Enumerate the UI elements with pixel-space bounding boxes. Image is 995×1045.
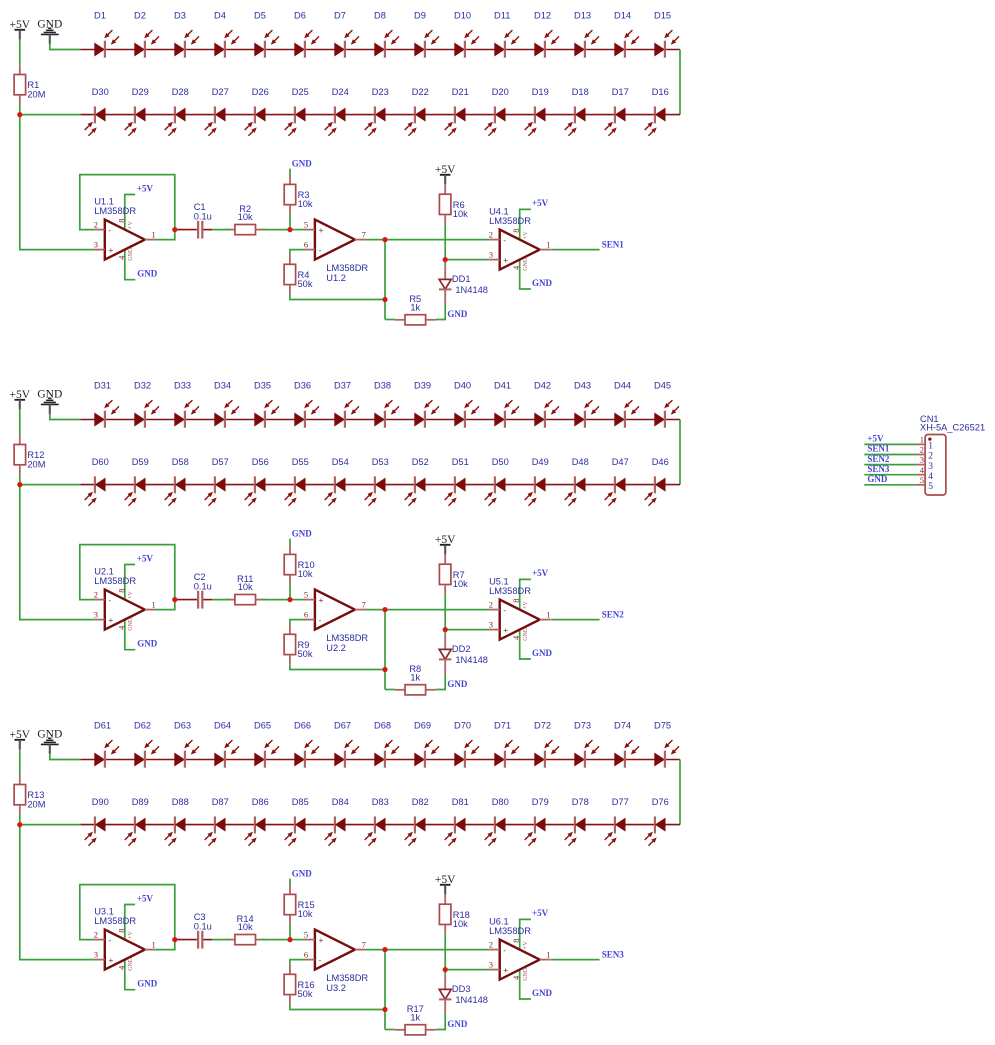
net +5V at output op-amp xyxy=(520,579,531,611)
wire output of second op-amp xyxy=(366,949,489,951)
photodiode D38 xyxy=(374,381,399,428)
svg-text:+: + xyxy=(503,625,508,635)
svg-text:D4: D4 xyxy=(214,11,226,21)
net +5V at output op-amp xyxy=(520,209,531,241)
svg-text:3: 3 xyxy=(928,462,933,472)
svg-text:D3: D3 xyxy=(174,11,186,21)
svg-text:GND: GND xyxy=(867,474,888,484)
svg-text:-: - xyxy=(503,235,506,245)
svg-text:1: 1 xyxy=(920,435,924,445)
+5V power flag xyxy=(10,729,31,749)
svg-text:LM358DR: LM358DR xyxy=(94,576,136,586)
wire node to pin 5 xyxy=(290,939,305,941)
svg-text:8: 8 xyxy=(511,598,521,602)
svg-text:D86: D86 xyxy=(252,797,269,807)
net GND at first op-amp xyxy=(125,619,136,650)
wire right edge joining rows xyxy=(679,760,681,825)
svg-text:D24: D24 xyxy=(332,87,349,97)
connector pin 5 net GND xyxy=(864,474,933,492)
photodiode D44 xyxy=(614,381,639,428)
net GND at output op-amp xyxy=(520,969,531,1000)
wire output of second op-amp xyxy=(366,239,489,241)
svg-text:GND: GND xyxy=(447,679,468,689)
svg-text:D74: D74 xyxy=(614,721,631,731)
svg-text:DD2: DD2 xyxy=(452,644,471,654)
svg-text:10k: 10k xyxy=(238,922,253,932)
svg-text:4: 4 xyxy=(928,472,933,482)
capacitor C1 0.1u xyxy=(175,202,213,239)
net GND above R3 xyxy=(289,169,291,176)
photodiode D53 xyxy=(365,457,389,506)
resistor R15 10k xyxy=(284,885,314,925)
wire top diode row xyxy=(80,419,680,421)
svg-text:D87: D87 xyxy=(212,797,229,807)
svg-text:4: 4 xyxy=(116,255,126,260)
net GND at first op-amp xyxy=(125,959,136,990)
svg-text:2: 2 xyxy=(94,929,98,939)
node feedback/C junction xyxy=(172,937,177,942)
svg-text:D20: D20 xyxy=(492,87,509,97)
svg-text:6: 6 xyxy=(304,949,308,959)
svg-text:D44: D44 xyxy=(614,381,631,391)
connector CN1 XH-5A_C26521 xyxy=(920,414,985,495)
photodiode D76 xyxy=(645,797,669,846)
svg-text:SEN1: SEN1 xyxy=(867,444,890,454)
svg-text:D76: D76 xyxy=(652,797,669,807)
photodiode D64 xyxy=(214,721,239,768)
svg-text:10k: 10k xyxy=(298,199,313,209)
resistor R10 10k xyxy=(284,545,314,585)
+5V power flag xyxy=(435,874,456,894)
svg-text:3: 3 xyxy=(489,249,493,259)
svg-text:U3.1: U3.1 xyxy=(94,907,114,917)
photodiode D83 xyxy=(365,797,389,846)
wire R to lower net xyxy=(290,1004,385,1009)
net +5V at first op-amp xyxy=(125,195,135,232)
svg-text:SEN2: SEN2 xyxy=(867,454,890,464)
svg-text:D7: D7 xyxy=(334,11,346,21)
svg-text:D53: D53 xyxy=(372,457,389,467)
photodiode D77 xyxy=(605,797,629,846)
wire ground to top diode row xyxy=(50,44,81,50)
photodiode D25 xyxy=(285,87,309,136)
resistor R2 10k xyxy=(225,204,266,235)
photodiode D3 xyxy=(174,11,199,58)
svg-text:SEN1: SEN1 xyxy=(602,239,625,249)
wire R down across to pin3 node xyxy=(444,594,446,629)
svg-text:D68: D68 xyxy=(374,721,391,731)
svg-text:+5V: +5V xyxy=(137,184,154,194)
svg-text:GND: GND xyxy=(128,957,134,971)
photodiode D21 xyxy=(445,87,469,136)
wire junction to bottom diode row xyxy=(20,484,81,486)
svg-text:6: 6 xyxy=(304,239,308,249)
photodiode D55 xyxy=(285,457,309,506)
svg-text:SEN3: SEN3 xyxy=(602,949,625,959)
svg-text:D34: D34 xyxy=(214,381,231,391)
photodiode D52 xyxy=(405,457,429,506)
capacitor C3 0.1u xyxy=(175,912,213,949)
node left rail junction xyxy=(17,822,22,827)
resistor R3 10k xyxy=(284,175,313,215)
svg-text:D22: D22 xyxy=(412,87,429,97)
svg-text:D43: D43 xyxy=(574,381,591,391)
svg-text:D36: D36 xyxy=(294,381,311,391)
wire feedback loop xyxy=(80,545,175,610)
svg-text:6: 6 xyxy=(304,609,308,619)
svg-text:4: 4 xyxy=(116,965,126,970)
node lower net junction xyxy=(382,297,387,302)
photodiode D75 xyxy=(654,721,679,768)
photodiode D72 xyxy=(534,721,559,768)
wire R to diode column xyxy=(436,674,446,690)
svg-text:D41: D41 xyxy=(494,381,511,391)
svg-text:2: 2 xyxy=(920,445,924,455)
svg-text:1k: 1k xyxy=(410,1012,420,1022)
photodiode D31 xyxy=(94,381,119,428)
svg-text:5: 5 xyxy=(304,589,308,599)
resistor R8 1k xyxy=(395,664,436,695)
svg-text:3: 3 xyxy=(920,455,924,465)
svg-text:+: + xyxy=(503,965,508,975)
connector pin 4 net SEN3 xyxy=(864,464,933,482)
photodiode D61 xyxy=(94,721,119,768)
op-amp U2.2 xyxy=(304,589,369,652)
resistor R12 20M xyxy=(14,435,45,475)
svg-text:D56: D56 xyxy=(252,457,269,467)
resistor R16 50k xyxy=(284,965,314,1005)
svg-text:+5V: +5V xyxy=(532,198,549,208)
svg-text:D8: D8 xyxy=(374,11,386,21)
photodiode D49 xyxy=(525,457,549,506)
wire R down to node xyxy=(289,584,291,599)
photodiode D60 xyxy=(85,457,109,506)
wire left rail to op-amp pin3 xyxy=(20,105,95,250)
svg-text:SEN3: SEN3 xyxy=(867,464,890,474)
photodiode D69 xyxy=(414,721,439,768)
svg-text:D16: D16 xyxy=(652,87,669,97)
svg-text:8: 8 xyxy=(116,928,126,932)
photodiode D18 xyxy=(565,87,589,136)
photodiode D71 xyxy=(494,721,519,768)
svg-text:D45: D45 xyxy=(654,381,671,391)
wire ground to top diode row xyxy=(50,754,81,760)
photodiode D22 xyxy=(405,87,429,136)
svg-text:D80: D80 xyxy=(492,797,509,807)
wire R to node xyxy=(261,229,290,231)
photodiode D16 xyxy=(645,87,669,136)
wire R to node xyxy=(261,939,290,941)
photodiode D58 xyxy=(165,457,189,506)
photodiode D27 xyxy=(205,87,229,136)
svg-text:50k: 50k xyxy=(298,649,313,659)
node output junction xyxy=(382,237,387,242)
wire output of second op-amp xyxy=(366,609,489,611)
svg-text:LM358DR: LM358DR xyxy=(94,206,136,216)
svg-text:+: + xyxy=(108,245,113,255)
svg-text:LM358DR: LM358DR xyxy=(326,263,368,273)
photodiode D2 xyxy=(134,11,159,58)
resistor R5 1k xyxy=(395,294,436,325)
svg-text:-: - xyxy=(319,615,322,625)
photodiode D51 xyxy=(445,457,469,506)
node feedback/C junction xyxy=(172,227,177,232)
wire R down across to pin3 node xyxy=(444,934,446,969)
svg-text:D39: D39 xyxy=(414,381,431,391)
svg-text:+5V: +5V xyxy=(137,894,154,904)
svg-text:1: 1 xyxy=(546,240,550,250)
net GND above R15 xyxy=(289,879,291,886)
svg-text:GND: GND xyxy=(523,627,529,641)
svg-text:D57: D57 xyxy=(212,457,229,467)
+5V power flag xyxy=(10,19,31,39)
svg-text:1: 1 xyxy=(546,610,550,620)
connector pin 1 net +5V xyxy=(864,434,933,452)
svg-text:2: 2 xyxy=(489,229,493,239)
svg-text:GND: GND xyxy=(292,868,313,878)
svg-text:4: 4 xyxy=(920,465,925,475)
photodiode D42 xyxy=(534,381,559,428)
svg-text:2: 2 xyxy=(489,599,493,609)
svg-text:GND: GND xyxy=(128,617,134,631)
op-amp U1.2 xyxy=(304,219,369,282)
svg-text:D54: D54 xyxy=(332,457,349,467)
diode DD2 1N4148 xyxy=(439,635,488,674)
photodiode D66 xyxy=(294,721,319,768)
+5V power flag xyxy=(435,534,456,554)
svg-text:1k: 1k xyxy=(410,672,420,682)
svg-text:D27: D27 xyxy=(212,87,229,97)
photodiode D12 xyxy=(534,11,559,58)
photodiode D47 xyxy=(605,457,629,506)
svg-text:D75: D75 xyxy=(654,721,671,731)
net SEN3 output xyxy=(551,959,600,961)
svg-text:D6: D6 xyxy=(294,11,306,21)
resistor R17 1k xyxy=(395,1004,436,1035)
node R divider junction xyxy=(287,937,292,942)
photodiode D89 xyxy=(125,797,149,846)
wire right edge joining rows xyxy=(679,420,681,485)
svg-text:1: 1 xyxy=(152,600,156,610)
op-amp U3.1 xyxy=(94,907,156,971)
photodiode D80 xyxy=(485,797,509,846)
svg-text:+: + xyxy=(503,255,508,265)
svg-text:2: 2 xyxy=(928,452,933,462)
svg-text:8: 8 xyxy=(511,228,521,232)
photodiode D40 xyxy=(454,381,479,428)
svg-text:-: - xyxy=(503,945,506,955)
resistor R4 50k xyxy=(284,255,313,295)
svg-text:+: + xyxy=(108,615,113,625)
svg-text:D51: D51 xyxy=(452,457,469,467)
svg-text:D5: D5 xyxy=(254,11,266,21)
net GND at first op-amp xyxy=(125,249,136,280)
svg-text:D17: D17 xyxy=(612,87,629,97)
photodiode D30 xyxy=(85,87,109,136)
node R divider junction xyxy=(287,227,292,232)
resistor R18 10k xyxy=(439,895,469,935)
wire R to diode column xyxy=(436,1014,446,1030)
svg-text:D23: D23 xyxy=(372,87,389,97)
node lower net junction xyxy=(382,1007,387,1012)
svg-text:D82: D82 xyxy=(412,797,429,807)
op-amp U4.1 xyxy=(489,207,551,271)
net SEN1 output xyxy=(551,249,600,251)
svg-text:1: 1 xyxy=(546,950,550,960)
ground xyxy=(37,18,62,44)
svg-text:D72: D72 xyxy=(534,721,551,731)
svg-text:20M: 20M xyxy=(27,459,45,469)
svg-text:LM358DR: LM358DR xyxy=(94,916,136,926)
photodiode D81 xyxy=(445,797,469,846)
svg-text:XH-5A_C26521: XH-5A_C26521 xyxy=(920,423,985,433)
svg-text:U3.2: U3.2 xyxy=(326,983,346,993)
svg-text:1N4148: 1N4148 xyxy=(455,655,488,665)
svg-text:D38: D38 xyxy=(374,381,391,391)
connector pin 3 net SEN2 xyxy=(864,454,933,472)
svg-text:D73: D73 xyxy=(574,721,591,731)
photodiode D54 xyxy=(325,457,349,506)
svg-text:10k: 10k xyxy=(453,579,468,589)
svg-text:D55: D55 xyxy=(292,457,309,467)
photodiode D56 xyxy=(245,457,269,506)
wire C to R xyxy=(212,599,229,601)
svg-text:D79: D79 xyxy=(532,797,549,807)
svg-text:D30: D30 xyxy=(92,87,109,97)
ground xyxy=(37,388,62,414)
op-amp U2.1 xyxy=(94,567,156,631)
photodiode D63 xyxy=(174,721,199,768)
op-amp U6.1 xyxy=(489,917,551,981)
svg-text:3: 3 xyxy=(94,949,98,959)
svg-text:GND: GND xyxy=(532,988,553,998)
svg-text:D50: D50 xyxy=(492,457,509,467)
svg-text:D15: D15 xyxy=(654,11,671,21)
svg-text:U1.2: U1.2 xyxy=(326,273,346,283)
svg-text:10k: 10k xyxy=(298,569,313,579)
wire R to lower net xyxy=(290,664,385,669)
svg-text:D21: D21 xyxy=(452,87,469,97)
wire R down to node xyxy=(289,214,291,229)
svg-text:LM358DR: LM358DR xyxy=(489,586,531,596)
node diode/R junction xyxy=(443,627,448,632)
wire node to pin 3 of output op-amp xyxy=(445,259,489,261)
svg-text:D25: D25 xyxy=(292,87,309,97)
svg-text:SEN2: SEN2 xyxy=(602,609,625,619)
svg-text:+5V: +5V xyxy=(867,434,884,444)
svg-text:D88: D88 xyxy=(172,797,189,807)
wire node to pin 5 xyxy=(290,599,305,601)
svg-text:GND: GND xyxy=(128,247,134,261)
photodiode D57 xyxy=(205,457,229,506)
wire feedback loop xyxy=(80,885,175,950)
resistor R1 20M xyxy=(14,65,45,105)
photodiode D17 xyxy=(605,87,629,136)
svg-text:U6.1: U6.1 xyxy=(489,917,509,927)
svg-text:10k: 10k xyxy=(453,919,468,929)
wire output down to lower net xyxy=(384,610,386,690)
photodiode D59 xyxy=(125,457,149,506)
wire node to pin 3 of output op-amp xyxy=(445,969,489,971)
photodiode D29 xyxy=(125,87,149,136)
net +5V at first op-amp xyxy=(125,565,135,602)
photodiode D70 xyxy=(454,721,479,768)
photodiode D78 xyxy=(565,797,589,846)
svg-text:D85: D85 xyxy=(292,797,309,807)
node output junction xyxy=(382,607,387,612)
+5V power flag xyxy=(10,389,31,409)
svg-text:D69: D69 xyxy=(414,721,431,731)
svg-text:1N4148: 1N4148 xyxy=(455,995,488,1005)
photodiode D87 xyxy=(205,797,229,846)
svg-text:D12: D12 xyxy=(534,11,551,21)
svg-text:8: 8 xyxy=(511,938,521,942)
svg-text:2: 2 xyxy=(94,589,98,599)
photodiode D84 xyxy=(325,797,349,846)
photodiode D13 xyxy=(574,11,599,58)
svg-text:LM358DR: LM358DR xyxy=(489,926,531,936)
resistor R9 50k xyxy=(284,625,313,665)
svg-text:+V: +V xyxy=(523,231,529,239)
wire junction to bottom diode row xyxy=(20,114,81,116)
svg-text:D65: D65 xyxy=(254,721,271,731)
svg-text:D2: D2 xyxy=(134,11,146,21)
wire top diode row xyxy=(80,759,680,761)
photodiode D85 xyxy=(285,797,309,846)
wire right edge joining rows xyxy=(679,50,681,115)
svg-text:8: 8 xyxy=(116,588,126,592)
photodiode D1 xyxy=(94,11,119,58)
svg-text:U2.2: U2.2 xyxy=(326,643,346,653)
svg-text:D33: D33 xyxy=(174,381,191,391)
photodiode D68 xyxy=(374,721,399,768)
svg-text:20M: 20M xyxy=(27,799,45,809)
svg-text:4: 4 xyxy=(116,625,126,630)
svg-text:GND: GND xyxy=(447,1019,468,1029)
node R divider junction xyxy=(287,597,292,602)
photodiode D48 xyxy=(565,457,589,506)
svg-text:D71: D71 xyxy=(494,721,511,731)
svg-text:+: + xyxy=(319,225,324,235)
wire bottom diode row xyxy=(80,484,680,486)
svg-text:4: 4 xyxy=(511,635,521,640)
wire node to pin 3 of output op-amp xyxy=(445,629,489,631)
svg-text:2: 2 xyxy=(489,939,493,949)
op-amp U5.1 xyxy=(489,577,551,641)
svg-text:D42: D42 xyxy=(534,381,551,391)
photodiode D43 xyxy=(574,381,599,428)
photodiode D8 xyxy=(374,11,399,58)
photodiode D33 xyxy=(174,381,199,428)
node diode/R junction xyxy=(443,967,448,972)
svg-text:0.1u: 0.1u xyxy=(194,581,212,591)
svg-text:5: 5 xyxy=(304,929,308,939)
svg-text:0.1u: 0.1u xyxy=(194,211,212,221)
photodiode D41 xyxy=(494,381,519,428)
wire bottom diode row xyxy=(80,824,680,826)
svg-text:D10: D10 xyxy=(454,11,471,21)
node output junction xyxy=(382,947,387,952)
node feedback/C junction xyxy=(172,597,177,602)
svg-text:5: 5 xyxy=(920,475,924,485)
wire diode to pin 3 node xyxy=(444,260,446,265)
svg-text:D81: D81 xyxy=(452,797,469,807)
wire C to R xyxy=(212,229,229,231)
svg-text:1k: 1k xyxy=(410,302,420,312)
svg-text:3: 3 xyxy=(94,239,98,249)
photodiode D20 xyxy=(485,87,509,136)
wire R down across to pin3 node xyxy=(444,224,446,259)
